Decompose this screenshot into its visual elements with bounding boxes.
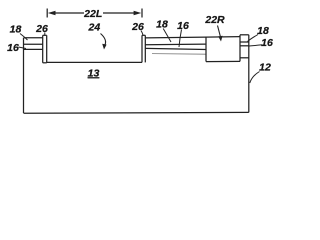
spacer 26 left (bottom): [43, 62, 47, 64]
svg-text:16: 16: [261, 37, 273, 49]
dimension 22L right tick: [141, 9, 143, 18]
recess 22R box bottom: [206, 60, 240, 62]
leader 18 far right: [248, 35, 259, 42]
svg-text:18: 18: [10, 24, 22, 36]
svg-text:12: 12: [259, 62, 271, 74]
leader 16 far right: [249, 45, 263, 46]
right mesa layer 16 bottom line: [145, 48, 206, 49]
leader 26 left: [44, 33, 46, 36]
leader 26 right: [141, 31, 143, 36]
arrowhead 24: [102, 44, 106, 50]
svg-text:18: 18: [156, 19, 168, 31]
left mesa layer 18 bottom line: [24, 43, 43, 45]
substrate left edge: [23, 38, 25, 113]
curved arrow 24: [101, 34, 106, 46]
leader 16 middle: [179, 30, 182, 48]
spacer 26 left (right wall): [46, 35, 48, 63]
right edge stack layer 18 line: [240, 41, 249, 43]
substrate bottom edge: [24, 111, 249, 114]
right mesa top surface: [145, 36, 206, 39]
leader 16 left: [19, 47, 27, 49]
right mesa faint lower layer line: [152, 53, 206, 56]
substrate right edge: [248, 35, 250, 113]
dimension 22L right arrowhead: [134, 11, 142, 15]
recess 22R box right wall: [239, 35, 241, 62]
right edge stack layer 16 line: [240, 45, 249, 47]
svg-text:13: 13: [88, 67, 100, 79]
spacer 26 right (top): [142, 34, 145, 36]
right mesa layer 18 bottom line: [145, 43, 206, 46]
recess 22L bottom surface of layer 13: [47, 61, 142, 63]
svg-text:24: 24: [88, 22, 101, 34]
svg-text:18: 18: [257, 25, 269, 37]
left mesa layer 16 bottom line: [24, 48, 43, 50]
right edge stack top: [240, 34, 249, 36]
leader 12: [250, 72, 260, 84]
svg-text:26: 26: [131, 21, 144, 33]
arrow 22R shaft: [218, 26, 221, 38]
spacer 26 left (top): [43, 34, 47, 36]
left mesa top surface: [24, 37, 43, 39]
leader 18 top-left: [20, 34, 28, 41]
spacer 26 right (right wall): [144, 35, 146, 62]
dimension 22L line left segment: [54, 12, 84, 14]
svg-text:26: 26: [35, 23, 48, 35]
recess 22R box left wall: [205, 37, 207, 62]
svg-text:16: 16: [177, 20, 189, 32]
right edge ledge line: [240, 57, 249, 59]
recess 22R box top: [206, 36, 240, 39]
svg-text:22L: 22L: [83, 8, 102, 20]
arrowhead 22R: [218, 36, 222, 42]
dimension 22L left tick: [46, 9, 48, 18]
dimension 22L left arrowhead: [48, 11, 56, 15]
leader 18 middle: [163, 29, 171, 43]
svg-text:22R: 22R: [204, 14, 225, 26]
dimension 22L line right segment: [103, 12, 135, 14]
svg-text:16: 16: [7, 42, 19, 54]
spacer 26 right (left wall): [141, 35, 143, 62]
spacer 26 left (left wall): [42, 35, 44, 63]
